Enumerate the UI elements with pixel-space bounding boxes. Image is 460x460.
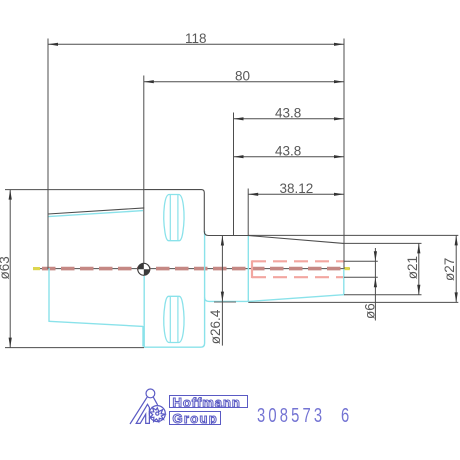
svg-text:118: 118: [185, 31, 207, 46]
extension line left body face (118): [47, 39, 49, 270]
drive slot lower (olive) outer: [164, 296, 184, 342]
flange left edge cyan lower: [143, 276, 145, 347]
ø6 dimension line: [374, 248, 376, 321]
body ø63 taper bottom edge cyan: [49, 321, 143, 326]
ø27 extension top: [248, 234, 458, 236]
ø27 extension bottom: [248, 301, 458, 303]
svg-text:ø6: ø6: [363, 303, 378, 319]
svg-text:43.8: 43.8: [275, 143, 301, 158]
dimension 43.8 first line: [234, 118, 345, 120]
ø6 extension top: [344, 260, 378, 262]
dimension 38.12 line: [248, 193, 344, 195]
logo right diagonal to gear: [153, 397, 157, 405]
body left face cyan lower: [48, 268, 50, 322]
ø6 extension bottom: [344, 276, 378, 278]
body right junction cyan: [142, 326, 144, 347]
ø63 extension top: [5, 189, 144, 191]
centerline yellow end dash left: [33, 267, 40, 270]
Hoffmann Group logo figure: [130, 389, 165, 424]
bore bottom end (pink vertical): [251, 260, 253, 278]
tip face cyan lower: [343, 269, 345, 296]
dimension 118 line: [48, 43, 344, 45]
svg-text:ø21: ø21: [405, 256, 420, 279]
centerline black thin: [33, 268, 350, 270]
taper top edge black: [248, 236, 344, 244]
taper bottom edge cyan: [248, 295, 343, 302]
drive slot lower inner line right: [177, 296, 179, 342]
drive slot upper inner line right: [177, 195, 179, 241]
taper base edge cyan: [247, 236, 249, 302]
extension line flange left (80): [143, 76, 145, 264]
svg-text:80: 80: [235, 69, 250, 84]
dimension 43.8 second line: [234, 156, 345, 158]
svg-text:ø63: ø63: [0, 256, 12, 279]
extension line 38.12: [247, 189, 249, 236]
logo leg wedge: [136, 404, 149, 423]
ø21 dimension line: [418, 243, 420, 294]
ø27 dimension line: [455, 235, 457, 302]
svg-text:ø26.4: ø26.4: [208, 309, 223, 344]
svg-text:43.8: 43.8: [275, 106, 301, 121]
flange bottom edge cyan: [144, 231, 205, 347]
logo snowflake: [150, 408, 165, 422]
node marker at flange left center: [138, 263, 150, 275]
logo head circle: [146, 389, 155, 398]
logo long left diagonal: [130, 397, 147, 424]
ø63 extension bottom: [5, 347, 144, 349]
neck bottom black segment: [214, 301, 236, 303]
logo snowflake center: [156, 412, 159, 415]
logo text Hoffmann: [169, 395, 248, 408]
svg-text:ø27: ø27: [442, 258, 457, 281]
ø63 dimension line: [9, 190, 11, 348]
ø26.4 dimension line: [221, 236, 223, 346]
svg-text:38.12: 38.12: [280, 181, 314, 196]
body ø63 taper top edge cyan: [48, 211, 143, 217]
ø21 extension top: [344, 242, 422, 244]
ø21 extension bottom: [344, 294, 422, 296]
article number suffix 6: [341, 404, 352, 428]
logo text Group: [169, 411, 221, 425]
neck bottom fillet cyan: [205, 298, 249, 302]
drive slot upper (olive) outer: [164, 195, 184, 241]
dimension 80 line: [144, 81, 344, 83]
logo gear circle: [149, 406, 165, 422]
bore hidden line top (pink dashed): [252, 260, 344, 262]
drive slot lower inner line left: [169, 296, 171, 342]
centerline yellow end dash right: [344, 267, 350, 270]
part outline black: body top edge: [48, 208, 144, 214]
extension line right tip face: [343, 39, 345, 270]
flange top edge + right face + fillet to neck top (black): [144, 190, 248, 236]
article number 308573: [257, 404, 325, 428]
extension line 43.8 pair: [233, 113, 235, 236]
drive slot upper inner line left: [169, 195, 171, 241]
bore hidden line bottom (pink dashed): [252, 276, 344, 278]
centerline red dashes: [42, 267, 342, 271]
